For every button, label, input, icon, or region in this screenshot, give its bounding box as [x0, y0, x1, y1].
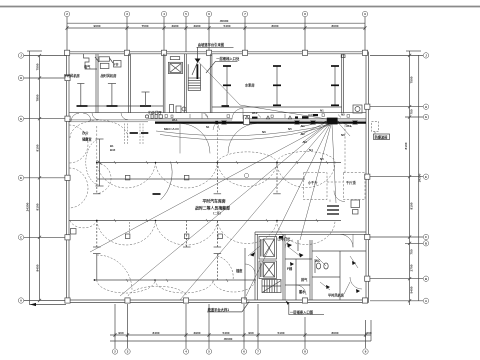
mid right rooms dashed [304, 125, 365, 203]
columns interior [125, 175, 222, 238]
jack room labels [307, 180, 356, 185]
svg-text:8000: 8000 [332, 24, 339, 28]
tray junction dark [215, 121, 218, 124]
svg-text:B: B [425, 277, 427, 281]
building outer wall bottom [67, 300, 369, 303]
svg-text:7500: 7500 [410, 76, 414, 83]
stair diagonal [262, 281, 281, 293]
svg-text:7: 7 [244, 12, 246, 16]
door arcs bottom right [245, 234, 362, 295]
bottom left arrow [30, 303, 66, 306]
svg-text:8400: 8400 [36, 264, 40, 271]
top grid bubbles [64, 11, 367, 16]
svg-text:N5: N5 [320, 157, 324, 161]
svg-text:3: 3 [127, 350, 129, 354]
corridor cable tray dark [155, 121, 366, 123]
corridor north wall [69, 112, 366, 114]
bow-tie connectors on tray [221, 121, 358, 125]
hall dashed wiring arcs bottom [97, 280, 255, 296]
svg-text:750: 750 [410, 249, 414, 254]
pump room south wall [212, 106, 342, 108]
svg-text:5400: 5400 [410, 286, 414, 293]
labels bottom right block [236, 237, 344, 298]
svg-text:E: E [425, 175, 427, 179]
svg-text:N3: N3 [303, 140, 307, 144]
svg-text:2: 2 [66, 12, 68, 16]
door arc bottom-left fixture [97, 255, 132, 290]
columns right wall [362, 104, 370, 303]
svg-text:插座: 插座 [236, 268, 243, 273]
partition top-left rooms [96, 54, 165, 113]
bottom label ramp detail [207, 302, 249, 312]
hall center label [195, 198, 230, 214]
top grid stems [67, 17, 365, 52]
hall dashed wiring arcs row3 [70, 221, 335, 246]
corridor equipment cluster [145, 105, 186, 119]
svg-text:千斤顶: 千斤顶 [346, 180, 356, 185]
svg-text:5: 5 [208, 350, 210, 354]
bottom right block west wall [255, 232, 257, 300]
door arcs hall north [180, 123, 258, 153]
office label [82, 130, 92, 142]
svg-text:WL1: WL1 [172, 118, 178, 122]
columns bottom wall [125, 298, 308, 303]
building outer wall top [67, 52, 369, 54]
svg-text:C: C [20, 235, 22, 239]
svg-text:45000: 45000 [224, 337, 233, 341]
wire tick marks row3 [114, 219, 116, 222]
feeder lines from panel [90, 121, 352, 300]
svg-text:平时汽车库房: 平时汽车库房 [202, 198, 225, 203]
svg-text:5100: 5100 [278, 331, 285, 335]
bottom grid stems [115, 304, 371, 348]
fixture post upper hall [86, 139, 104, 186]
svg-text:N5: N5 [341, 113, 345, 117]
corridor door arcs [92, 113, 208, 120]
svg-text:A: A [20, 299, 22, 303]
svg-text:N5: N5 [288, 127, 292, 131]
svg-text:一层楼梯入口处: 一层楼梯入口处 [216, 56, 240, 61]
svg-text:750: 750 [410, 109, 414, 114]
door jamb box corridor [244, 116, 250, 125]
column stub below row3 [129, 222, 131, 234]
top dimension line overall [67, 19, 365, 23]
stair top [188, 64, 200, 90]
svg-text:8100: 8100 [36, 203, 40, 210]
svg-text:由坡道平台引来图: 由坡道平台引来图 [198, 42, 225, 47]
dark marks bottom right [250, 236, 360, 293]
right grid bubbles [423, 53, 428, 304]
svg-text:AA1: AA1 [308, 113, 314, 117]
svg-text:B4Σ: B4Σ [110, 148, 116, 152]
svg-text:一层插座入口图: 一层插座入口图 [290, 309, 314, 314]
svg-text:8100: 8100 [36, 144, 40, 151]
pump room east wall [342, 54, 344, 113]
svg-text:7800: 7800 [36, 94, 40, 101]
left grid leaders [24, 56, 66, 301]
svg-text:4: 4 [185, 350, 187, 354]
svg-text:电气: 电气 [84, 64, 91, 69]
svg-text:8400: 8400 [153, 331, 160, 335]
right grid leaders [370, 55, 423, 300]
stair bottom right [262, 280, 281, 293]
tiny labels B1 [110, 144, 116, 152]
fixture stem third [145, 92, 147, 106]
svg-text:N4: N4 [309, 148, 313, 152]
hall fixture row 2 [97, 178, 305, 180]
svg-text:(二区): (二区) [213, 210, 221, 215]
svg-text:2: 2 [114, 350, 116, 354]
svg-text:F井: F井 [114, 61, 119, 66]
svg-text:蓄水: 蓄水 [299, 289, 306, 294]
label platform lead-in top [197, 42, 234, 47]
svg-text:防爆波阀: 防爆波阀 [375, 134, 388, 139]
svg-text:J: J [20, 54, 22, 58]
svg-text:24300: 24300 [417, 173, 421, 182]
riser diagonal to panel [198, 61, 327, 119]
dark bar mid hall [153, 193, 161, 195]
left vertical dimension lines [26, 51, 42, 305]
svg-text:排气: 排气 [301, 277, 308, 282]
elevator top [168, 62, 182, 73]
svg-text:8: 8 [304, 12, 306, 16]
svg-text:6: 6 [243, 350, 245, 354]
svg-text:3900: 3900 [172, 24, 179, 28]
svg-text:600: 600 [366, 331, 371, 335]
dark symbol mid right [327, 206, 339, 214]
svg-text:9000: 9000 [94, 24, 101, 28]
hall fixture row 3 [69, 220, 341, 247]
fixtures pump room col3 [334, 66, 336, 105]
svg-text:G: G [425, 115, 427, 119]
svg-text:储藏室: 储藏室 [82, 137, 92, 142]
svg-text:J: J [425, 54, 427, 58]
dark bars upper hall [130, 132, 149, 134]
small box right room [353, 105, 362, 113]
WC toilets [315, 259, 328, 273]
svg-text:N6: N6 [341, 133, 345, 137]
svg-text:8100: 8100 [410, 202, 414, 209]
feeder labels [301, 109, 352, 162]
svg-text:水泵房: 水泵房 [244, 83, 255, 88]
elevator 2 [259, 261, 277, 279]
svg-text:24300: 24300 [26, 202, 30, 211]
svg-text:E: E [20, 176, 22, 180]
svg-text:坡道平台大样1: 坡道平台大样1 [208, 307, 230, 312]
label entry top [206, 56, 240, 73]
svg-text:9: 9 [365, 350, 367, 354]
svg-text:G: G [20, 117, 22, 121]
building outer wall left [67, 52, 70, 303]
svg-text:8000: 8000 [272, 24, 279, 28]
svg-text:5400: 5400 [224, 24, 231, 28]
svg-text:8000: 8000 [332, 331, 339, 335]
junction dots [155, 162, 157, 164]
svg-text:N1: N1 [320, 109, 324, 113]
hall fixture row 1 [93, 162, 341, 194]
hall dashed conduits vertical [97, 126, 218, 163]
columns left wall [65, 75, 76, 303]
svg-text:N6: N6 [262, 130, 266, 134]
elevator lobby west wall [244, 248, 246, 300]
svg-text:办公: 办公 [82, 130, 89, 135]
bottom right block north wall [255, 232, 366, 234]
svg-text:H: H [425, 105, 427, 109]
svg-text:3900: 3900 [194, 24, 201, 28]
svg-text:平时风机房: 平时风机房 [328, 293, 344, 298]
stair dark rail [196, 64, 198, 79]
fixtures pump room col2 [276, 66, 278, 105]
blast valve dashed box [372, 122, 379, 135]
feeder long runs to west [156, 125, 330, 140]
tiny box top wall [341, 55, 345, 58]
riser feed dot [192, 47, 201, 75]
conduit dashed pair upper hall [125, 124, 144, 146]
feed arrows bottom right [248, 246, 358, 294]
vent box [170, 57, 179, 60]
corridor south wall right part [148, 119, 366, 120]
equipment boxes top [95, 57, 121, 69]
small tag texts [172, 111, 258, 129]
right vertical dimension lines [404, 51, 421, 305]
svg-text:C: C [425, 235, 427, 239]
left grid bubbles [18, 53, 23, 303]
sheet top border [0, 6, 480, 8]
corridor clutter marks [165, 115, 167, 118]
ramp big arc [161, 162, 234, 281]
columns top wall [65, 50, 368, 55]
svg-text:B: B [425, 241, 427, 245]
svg-text:A: A [425, 299, 427, 303]
bottom dimension lines [110, 331, 372, 341]
left wall dashed arc [69, 125, 88, 208]
small circle tag hall [244, 173, 248, 177]
svg-text:4: 4 [163, 12, 165, 16]
svg-text:战时风机房: 战时风机房 [101, 73, 117, 78]
hall dashed wiring arcs row1 [70, 120, 335, 194]
distribution panel dark [327, 118, 338, 125]
building outer wall right [366, 52, 369, 303]
fixture left room [77, 84, 163, 107]
svg-text:N2: N2 [301, 132, 305, 136]
svg-text:小千斤: 小千斤 [307, 180, 318, 185]
svg-text:MEC=A×O: MEC=A×O [164, 127, 179, 131]
corridor door at gap [232, 108, 243, 119]
svg-text:3: 3 [126, 12, 128, 16]
svg-text:5: 5 [185, 12, 187, 16]
svg-text:H: H [20, 76, 22, 80]
svg-text:AL1: AL1 [346, 124, 352, 128]
wire tick marks row4 [126, 279, 128, 282]
svg-text:平时风机房: 平时风机房 [64, 73, 80, 78]
elevator shaft walls [184, 54, 212, 113]
svg-text:5400: 5400 [223, 331, 230, 335]
tray marks [252, 114, 318, 119]
svg-text:7500: 7500 [36, 63, 40, 70]
elevator 1 [259, 237, 277, 260]
top dimension line spans [65, 24, 366, 30]
svg-text:7500: 7500 [142, 24, 149, 28]
svg-text:3900: 3900 [194, 331, 201, 335]
corridor south wall left part [69, 120, 148, 122]
svg-text:6: 6 [208, 12, 210, 16]
bottom grid bubbles [112, 349, 368, 354]
fixtures pump room col1 [226, 66, 228, 105]
hall fixture row 4 [93, 254, 256, 281]
bottom label entry plan [286, 301, 324, 315]
closet dianqi [84, 54, 98, 69]
svg-text:F梯: F梯 [287, 266, 293, 271]
small rects mid right [334, 191, 360, 214]
svg-text:9: 9 [364, 12, 366, 16]
svg-text:8100: 8100 [404, 142, 408, 149]
wire tick marks row1 [114, 161, 116, 164]
partitions bottom right block [283, 234, 366, 300]
svg-text:N1: N1 [206, 125, 210, 129]
svg-text:900: 900 [248, 331, 253, 335]
svg-text:N1: N1 [301, 124, 305, 128]
svg-text:7: 7 [257, 350, 259, 354]
corridor north door arcs left [71, 113, 91, 121]
svg-text:WC: WC [315, 259, 321, 263]
svg-text:900: 900 [118, 331, 123, 335]
svg-text:WL2: WL2 [252, 111, 258, 115]
blast valve label [374, 134, 390, 140]
svg-text:2700: 2700 [410, 264, 414, 271]
svg-text:45000: 45000 [220, 19, 229, 23]
svg-text:8: 8 [304, 350, 306, 354]
